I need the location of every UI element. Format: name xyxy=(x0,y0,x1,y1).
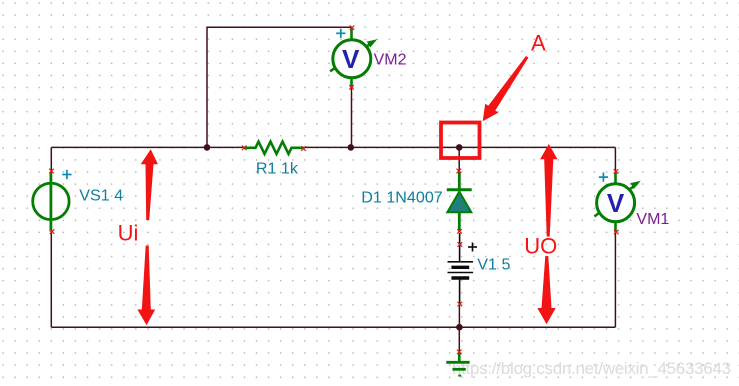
svg-text:A: A xyxy=(531,31,546,56)
svg-text:V: V xyxy=(342,44,360,74)
svg-text:D1 1N4007: D1 1N4007 xyxy=(361,189,442,207)
svg-text:https://blog.csdn.net/weixin_4: https://blog.csdn.net/weixin_45633643 xyxy=(452,359,731,378)
svg-text:VM1: VM1 xyxy=(636,211,669,228)
svg-text:Ui: Ui xyxy=(118,221,139,246)
svg-text:UO: UO xyxy=(524,234,557,259)
svg-text:V: V xyxy=(607,188,625,218)
svg-text:VS1 4: VS1 4 xyxy=(79,187,123,205)
svg-text:V1 5: V1 5 xyxy=(477,256,510,274)
svg-text:R1 1k: R1 1k xyxy=(256,159,299,177)
svg-text:VM2: VM2 xyxy=(374,52,407,69)
